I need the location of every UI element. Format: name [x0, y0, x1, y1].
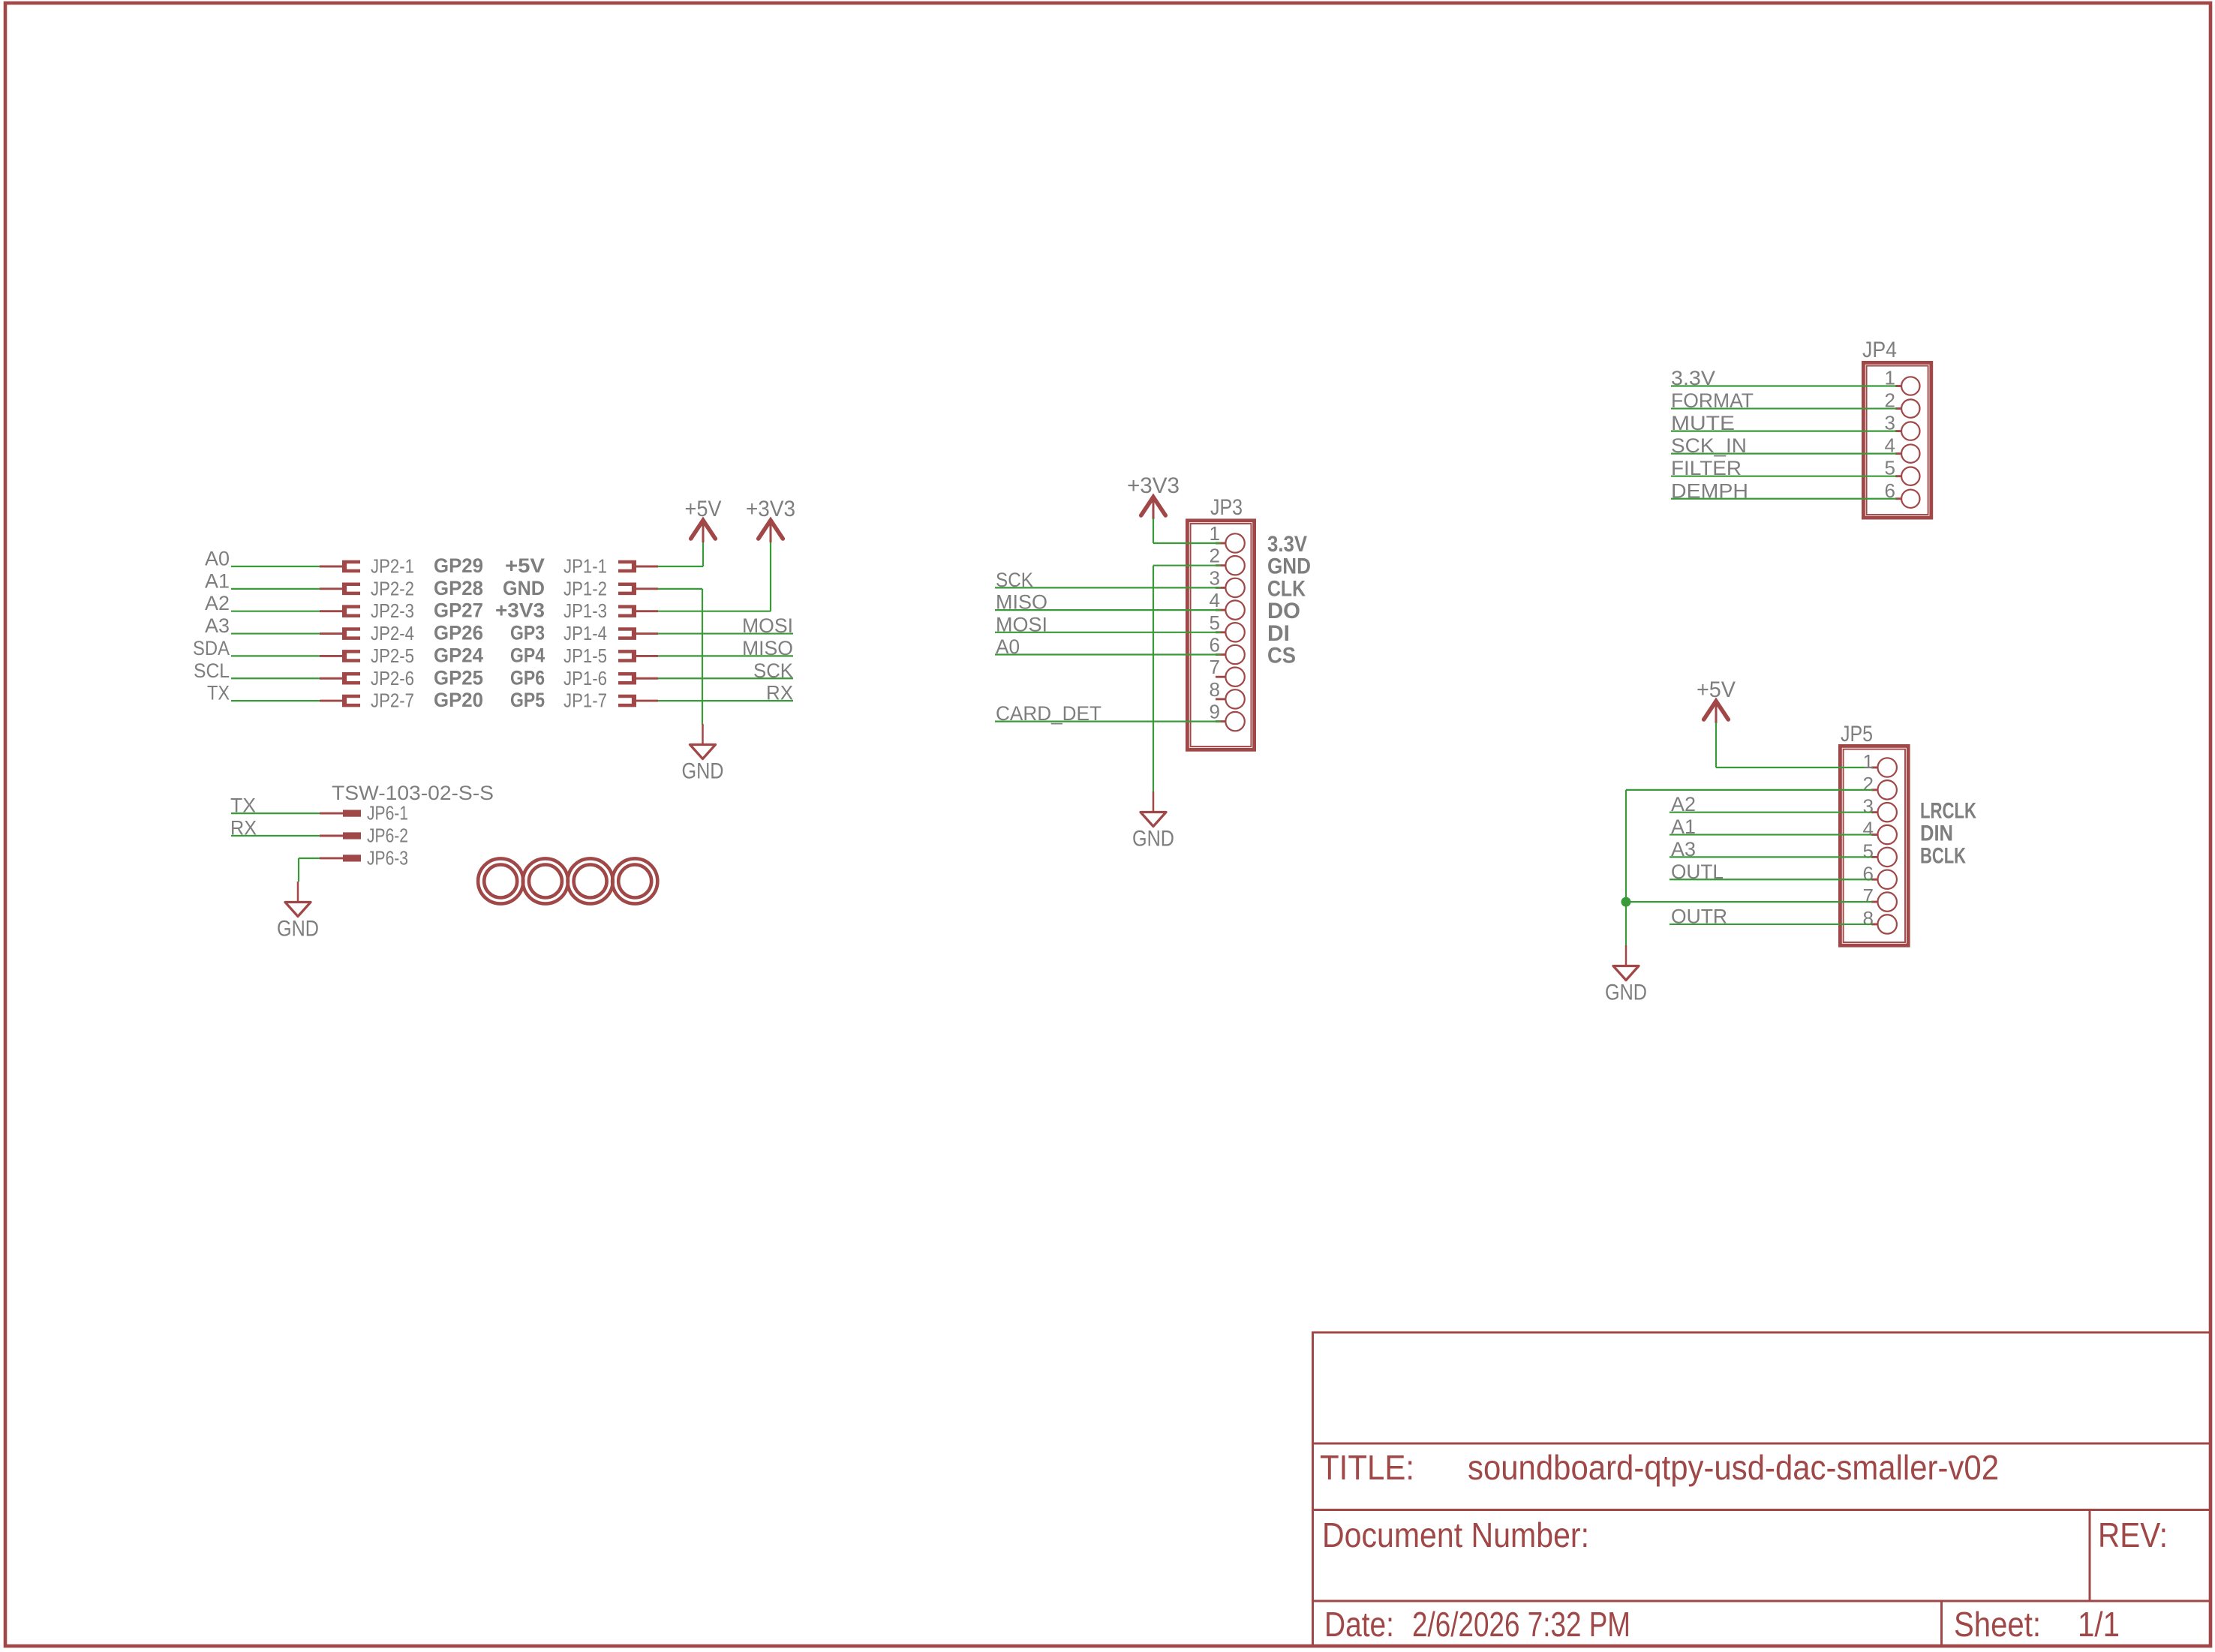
wire +5V to JP5 pin 1 — [1716, 722, 1872, 767]
svg-text:4: 4 — [1210, 589, 1220, 611]
svg-text:RX: RX — [766, 682, 793, 704]
svg-text:GND: GND — [1605, 981, 1647, 1005]
svg-text:2/6/2026 7:32 PM: 2/6/2026 7:32 PM — [1412, 1605, 1630, 1644]
pin JP2-1 — [320, 560, 360, 573]
wire OUTL to JP5 pin 6 — [1670, 879, 1872, 880]
svg-text:JP2-7: JP2-7 — [371, 689, 414, 712]
JP4 pin circles 1-6 — [1901, 377, 1919, 508]
svg-text:GP29: GP29 — [434, 554, 483, 577]
JP3 pin numbers 1-9 — [1210, 522, 1220, 723]
svg-text:SCL: SCL — [194, 659, 230, 682]
svg-text:BCLK: BCLK — [1920, 843, 1966, 868]
svg-text:JP2-3: JP2-3 — [371, 599, 414, 622]
svg-text:9: 9 — [1210, 701, 1220, 723]
svg-text:+3V3: +3V3 — [1127, 473, 1180, 498]
wire JP1-1 to +5V — [658, 566, 703, 567]
svg-text:JP1-1: JP1-1 — [564, 555, 607, 578]
wire MUTE to JP4 pin 3 — [1671, 430, 1896, 431]
JP3 pin names 3.3V GND CLK DO DI CS — [1267, 532, 1311, 668]
svg-text:TSW-103-02-S-S: TSW-103-02-S-S — [332, 782, 494, 804]
svg-text:JP2-1: JP2-1 — [371, 555, 414, 578]
wire SCL to JP2-6 — [231, 677, 320, 679]
power symbol +3V3 (JP3) — [1127, 473, 1180, 519]
wire JP1-7 to net RX — [658, 700, 793, 701]
svg-text:JP1-5: JP1-5 — [564, 644, 607, 667]
svg-text:GP3: GP3 — [510, 622, 545, 644]
svg-text:3: 3 — [1210, 566, 1220, 589]
wire JP1-3 to +3V3 — [658, 611, 771, 612]
wire DEMPH to JP4 pin 6 — [1671, 498, 1896, 500]
svg-text:+5V: +5V — [505, 554, 545, 577]
svg-text:SDA: SDA — [193, 637, 230, 659]
svg-text:JP6-2: JP6-2 — [367, 824, 408, 847]
svg-text:GND: GND — [1132, 827, 1174, 852]
wire 3.3V to JP4 pin 1 — [1671, 385, 1896, 386]
svg-text:GP5: GP5 — [510, 689, 545, 711]
wire JP1-6 to net SCK — [658, 677, 793, 679]
pin JP2-3 — [320, 605, 360, 617]
svg-text:GND: GND — [503, 577, 545, 599]
svg-text:JP1-4: JP1-4 — [564, 622, 607, 644]
pin JP2-4 — [320, 627, 360, 640]
wire JP6-3 to GND — [299, 858, 320, 882]
title block frame — [1312, 1332, 2210, 1646]
svg-text:JP6-3: JP6-3 — [367, 846, 408, 869]
svg-text:DO: DO — [1267, 599, 1300, 623]
svg-text:JP5: JP5 — [1841, 722, 1873, 746]
svg-text:1: 1 — [1210, 522, 1220, 545]
wire +5V vertical — [702, 542, 704, 566]
svg-text:GP28: GP28 — [434, 577, 483, 599]
wire A1 to JP5 pin 4 — [1670, 834, 1872, 835]
svg-text:soundboard-qtpy-usd-dac-smalle: soundboard-qtpy-usd-dac-smaller-v02 — [1468, 1448, 1999, 1487]
svg-text:GND: GND — [1267, 554, 1311, 579]
svg-text:1/1: 1/1 — [2078, 1605, 2120, 1644]
svg-text:2: 2 — [1210, 545, 1220, 567]
pin JP6-2 — [320, 832, 361, 839]
connector JP4 — [1863, 362, 1931, 518]
svg-text:DI: DI — [1267, 621, 1290, 646]
pin JP2-2 — [320, 583, 360, 596]
ground symbol GND (JP6) — [277, 882, 319, 942]
wire A3 to JP5 pin 5 — [1670, 856, 1872, 858]
svg-text:JP6-1: JP6-1 — [367, 802, 408, 824]
wire A1 to JP2-2 — [231, 588, 320, 590]
svg-text:+5V: +5V — [685, 497, 722, 521]
svg-text:5: 5 — [1863, 840, 1874, 862]
wire TX to JP2-7 — [231, 700, 320, 701]
pin JP1-7 — [618, 695, 658, 707]
svg-text:GP20: GP20 — [434, 689, 483, 711]
svg-text:GP24: GP24 — [434, 644, 483, 666]
svg-text:6: 6 — [1863, 862, 1874, 885]
ground symbol GND (JP3) — [1132, 791, 1174, 852]
svg-text:TITLE:: TITLE: — [1320, 1448, 1414, 1487]
wire SCK_IN to JP4 pin 4 — [1671, 453, 1896, 455]
mounting holes H1-H4 — [478, 858, 657, 903]
svg-text:CS: CS — [1267, 644, 1296, 668]
svg-text:LRCLK: LRCLK — [1920, 799, 1976, 824]
svg-text:JP1-2: JP1-2 — [564, 577, 607, 599]
svg-text:GP6: GP6 — [510, 666, 545, 689]
svg-text:8: 8 — [1863, 907, 1874, 930]
pin JP2-5 — [320, 650, 360, 662]
wire SDA to JP2-5 — [231, 655, 320, 656]
JP5 pin names LRCLK DIN BCLK — [1920, 799, 1976, 869]
connector JP5 — [1840, 746, 1908, 945]
svg-text:+3V3: +3V3 — [495, 599, 545, 622]
svg-text:JP4: JP4 — [1862, 338, 1897, 362]
svg-text:8: 8 — [1210, 678, 1220, 701]
svg-text:GND: GND — [682, 759, 724, 784]
pin JP1-4 — [618, 627, 658, 640]
JP4 pin numbers 1-6 — [1885, 367, 1895, 502]
wire MISO to JP3 pin 4 — [995, 609, 1221, 611]
pin JP1-2 — [618, 583, 658, 596]
JP3 pin stubs — [1216, 543, 1226, 722]
svg-text:JP2-5: JP2-5 — [371, 644, 414, 667]
wire FILTER to JP4 pin 5 — [1671, 476, 1896, 477]
power symbol +5V — [685, 497, 722, 542]
wire GND net to JP5 pin 7 — [1626, 901, 1872, 903]
pin JP1-5 — [618, 650, 658, 662]
wire A0 to JP3 pin 6 — [995, 653, 1221, 655]
svg-text:6: 6 — [1210, 634, 1220, 656]
svg-text:5: 5 — [1210, 611, 1220, 634]
svg-text:GND: GND — [277, 917, 319, 942]
svg-text:JP1-6: JP1-6 — [564, 667, 607, 689]
power symbol +3V3 — [746, 497, 795, 542]
svg-text:GP25: GP25 — [434, 666, 483, 689]
svg-text:3: 3 — [1863, 795, 1874, 818]
wire FORMAT to JP4 pin 2 — [1671, 407, 1896, 409]
svg-text:Sheet:: Sheet: — [1954, 1605, 2041, 1644]
svg-text:GP4: GP4 — [510, 644, 545, 666]
wire JP1-4 to net MOSI — [658, 632, 793, 634]
svg-text:1: 1 — [1863, 750, 1874, 773]
svg-text:A1: A1 — [205, 569, 230, 592]
JP5 pin circles 1-8 — [1878, 758, 1897, 933]
JP5 pin numbers 1-8 — [1863, 750, 1874, 930]
wire JP1-5 to net MISO — [658, 655, 793, 656]
svg-text:DIN: DIN — [1920, 821, 1953, 846]
wire MOSI to JP3 pin 5 — [995, 632, 1221, 633]
svg-text:GP26: GP26 — [434, 622, 483, 644]
pin JP1-3 — [618, 605, 658, 617]
wire +3V3 to JP3 pin 1 — [1153, 518, 1221, 543]
wire GND vertical — [702, 589, 703, 725]
svg-text:JP1-3: JP1-3 — [564, 599, 607, 622]
svg-text:SCK: SCK — [753, 659, 793, 682]
svg-text:A3: A3 — [205, 614, 230, 637]
svg-text:MISO: MISO — [742, 637, 793, 659]
svg-text:A2: A2 — [205, 592, 230, 614]
pin JP6-1 — [320, 810, 361, 817]
svg-text:4: 4 — [1863, 818, 1874, 840]
wire A0 to JP2-1 — [231, 566, 320, 567]
svg-text:JP1-7: JP1-7 — [564, 689, 607, 712]
pin JP1-1 — [618, 560, 658, 573]
svg-text:2: 2 — [1863, 773, 1874, 795]
pin JP6-3 — [320, 855, 361, 861]
pin JP2-6 — [320, 672, 360, 685]
svg-text:7: 7 — [1863, 885, 1874, 907]
JP3 pin circles 1-9 — [1225, 533, 1244, 731]
JP4 pin stubs — [1895, 386, 1901, 499]
svg-text:+3V3: +3V3 — [746, 497, 795, 521]
wire RX to JP6-2 — [231, 835, 320, 837]
wire A3 to JP2-4 — [231, 632, 320, 634]
connector JP3 — [1187, 521, 1254, 750]
svg-text:TX: TX — [207, 682, 230, 704]
svg-text:JP2-6: JP2-6 — [371, 667, 414, 689]
svg-text:JP2-4: JP2-4 — [371, 622, 414, 644]
pin JP2-7 — [320, 695, 360, 707]
wire JP3 pin 2 to GND — [1153, 566, 1221, 791]
wire OUTR to JP5 pin 8 — [1670, 924, 1872, 925]
wire CARD_DET to JP3 pin 9 — [995, 720, 1221, 722]
pin JP1-6 — [618, 672, 658, 685]
JP5 pin stubs — [1871, 767, 1878, 924]
svg-text:GP27: GP27 — [434, 599, 483, 622]
svg-text:CLK: CLK — [1267, 576, 1306, 601]
svg-text:Date:: Date: — [1324, 1605, 1394, 1644]
svg-text:JP3: JP3 — [1210, 495, 1243, 520]
svg-text:MOSI: MOSI — [742, 614, 793, 637]
power symbol +5V (JP5) — [1697, 677, 1736, 723]
svg-text:REV:: REV: — [2098, 1515, 2168, 1554]
wire TX to JP6-1 — [231, 812, 320, 814]
wire A2 to JP2-3 — [231, 611, 320, 612]
wire A2 to JP5 pin 3 — [1670, 812, 1872, 813]
svg-text:JP2-2: JP2-2 — [371, 577, 414, 599]
wire JP1-2 to GND — [658, 588, 702, 590]
wire SCK to JP3 pin 3 — [995, 587, 1221, 588]
svg-text:+5V: +5V — [1697, 677, 1736, 702]
svg-text:3.3V: 3.3V — [1267, 532, 1307, 557]
svg-text:7: 7 — [1210, 656, 1220, 678]
junction — [1621, 897, 1631, 907]
ground symbol GND (JP5) — [1605, 945, 1647, 1005]
wire JP5 pin 2 to GND net — [1626, 790, 1872, 945]
svg-text:A0: A0 — [205, 548, 230, 570]
svg-text:Document Number:: Document Number: — [1322, 1515, 1589, 1554]
ground symbol GND (left block) — [682, 724, 724, 784]
wire +3V3 vertical — [770, 542, 771, 611]
